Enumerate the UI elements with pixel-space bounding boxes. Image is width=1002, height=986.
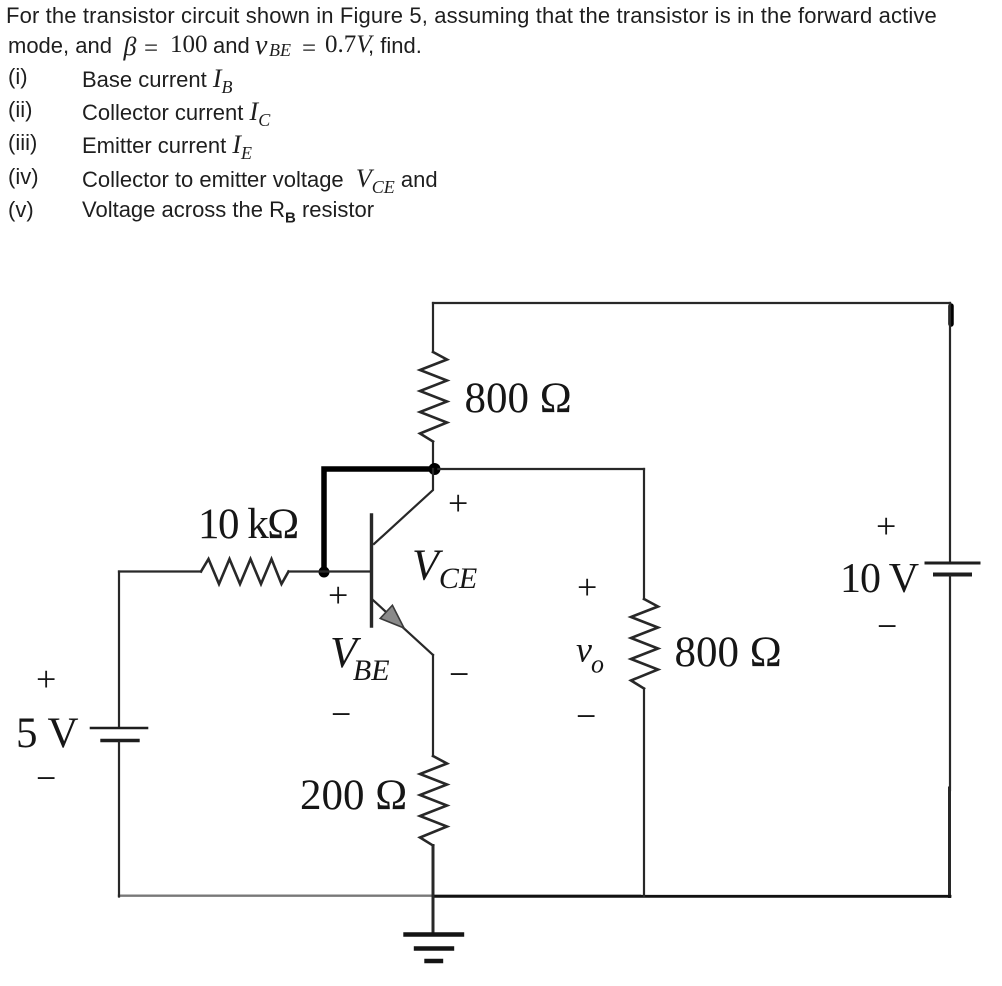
svg-text:−: − — [449, 654, 469, 694]
wire: vo branch upper — [643, 469, 645, 599]
svg-text:+: + — [876, 506, 896, 546]
svg-text:10 V: 10 V — [840, 556, 919, 602]
wire: right rail upper (to 10 V battery) — [949, 303, 951, 561]
wire: collector node to vo branch — [435, 468, 645, 470]
wire: left branch vertical upper — [118, 572, 120, 727]
svg-text:VCE: VCE — [412, 541, 477, 596]
resistor RB 10 kohm — [201, 559, 289, 584]
wire: base node to transistor base — [324, 570, 370, 572]
svg-text:800 Ω: 800 Ω — [465, 375, 572, 422]
problem statement text — [6, 3, 937, 29]
svg-text:−: − — [36, 758, 56, 798]
svg-text:5 V: 5 V — [16, 710, 79, 757]
wire: right rail lowest segment — [948, 788, 951, 897]
wire: RB to base node — [289, 570, 325, 572]
battery V1 5 V — [91, 728, 147, 741]
svg-text:+: + — [328, 575, 348, 615]
ground — [406, 935, 463, 962]
wire: thick feedback (collector to base) — [324, 469, 435, 569]
resistor R3 800 ohm (load) — [631, 599, 658, 689]
node: base junction — [319, 567, 330, 578]
node: collector junction — [429, 463, 441, 475]
wire: right rail lower (battery to bottom rail) — [949, 576, 951, 790]
resistor R2 200 ohm — [420, 756, 447, 846]
transistor Q1 — [372, 469, 434, 655]
svg-text:+: + — [577, 567, 597, 607]
wire: left branch vertical lower — [118, 742, 120, 897]
svg-text:800 Ω: 800 Ω — [675, 629, 782, 676]
svg-text:VBE: VBE — [330, 628, 390, 687]
resistor R1 800 ohm (collector) — [420, 352, 447, 442]
wire: left branch horizontal — [119, 570, 201, 572]
svg-text:200 Ω: 200 Ω — [300, 772, 407, 819]
wire: top rail — [433, 302, 950, 304]
wire: bottom rail (right, black) — [433, 895, 950, 898]
svg-text:+: + — [448, 483, 468, 523]
svg-text:−: − — [331, 694, 351, 734]
wire: top rail to R1 — [432, 303, 434, 352]
wire: R1 to collector node — [432, 442, 434, 467]
wire: R2 to bottom rail and ground — [432, 846, 435, 934]
svg-text:−: − — [576, 696, 596, 736]
svg-text:10 kΩ: 10 kΩ — [198, 501, 298, 548]
svg-text:+: + — [36, 659, 56, 699]
wire: bottom rail (left, grey) — [119, 895, 640, 897]
wire: top-right corner thick stub — [948, 306, 954, 324]
svg-text:−: − — [877, 606, 897, 646]
wire: emitter down to R2 — [432, 655, 434, 756]
battery V2 10 V — [926, 563, 979, 575]
wire: vo branch lower — [643, 689, 645, 897]
svg-text:vo: vo — [576, 630, 604, 679]
